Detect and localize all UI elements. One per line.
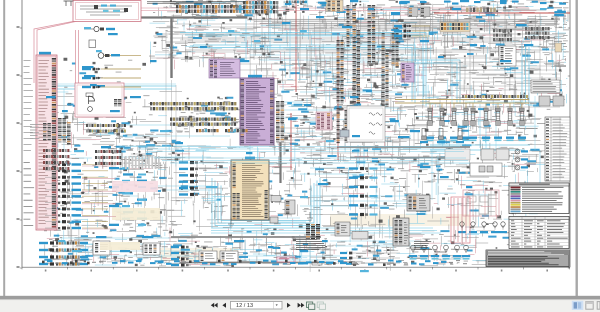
component rows left of tan block (179, 161, 228, 196)
beige box small BB2 (555, 43, 562, 52)
wire gray grid verticals (166, 30, 176, 230)
wire red vertical B (290, 113, 292, 170)
injector connector row above (462, 95, 525, 98)
scattered blue label noise (44, 1, 562, 266)
tiny text noise layer (43, 0, 562, 266)
terminal grid T2 (30, 123, 51, 140)
pale cream band mid-left (112, 208, 160, 220)
ECU pin strip right of U1 (276, 101, 284, 142)
module U3 (lavender, right) (401, 63, 414, 82)
wire harness bundle mid vertical (279, 142, 281, 183)
fuse row F1 top right (452, 8, 546, 13)
blue label cluster mid-left (109, 167, 147, 226)
drawing frame bottom border (22, 266, 570, 268)
vertical connector wires bottom half (67, 124, 463, 272)
gray cell cluster G2 (525, 27, 550, 39)
fine wiring noise layer (43, 0, 568, 266)
disclaimer note box (486, 250, 569, 267)
instrument box IB2 pair (481, 149, 509, 160)
cyan mid bundle reinforcement (130, 147, 470, 164)
toolbar background (0, 300, 600, 312)
connector rows mid-left lower (43, 149, 69, 170)
frame tick marks bottom (22, 267, 569, 269)
cyan label cluster far right (559, 3, 566, 5)
component stack left (rows with blue labels) (45, 163, 108, 230)
switch box SW1 (335, 222, 350, 236)
magenta label bottom-center (277, 257, 295, 262)
faint cream band right-center (330, 214, 470, 226)
page box dropdown caret (276, 304, 278, 306)
right edge tick text column (563, 2, 569, 52)
wire labels column left of P1 (23, 60, 34, 226)
wire fine cyan mesh (46, 36, 540, 256)
cyan label cluster top-right (399, 1, 410, 3)
beige block right BB1 (440, 22, 470, 32)
wire tan injector bus (395, 100, 529, 104)
connector strip J2 top (243, 1, 278, 13)
connector block J3 top beige (326, 0, 343, 12)
connector block CN9 right of tan (285, 200, 295, 214)
sidebar icon 3 partial (597, 302, 600, 310)
toolbar clipboard icon (317, 302, 323, 307)
junction box JB1 (white outline) (340, 106, 385, 142)
note text block N2 (296, 239, 327, 250)
pale pink band mid-left (112, 181, 158, 192)
top edge labels (285, 1, 547, 6)
wire cyan loop around tan block (212, 178, 320, 228)
valve assembly box V1 (pink outline) (75, 83, 124, 117)
drawing frame right border (569, 0, 571, 267)
svg-text:12 / 13: 12 / 13 (236, 303, 253, 309)
connector rows mid-center lower (95, 146, 121, 165)
toolbar prev-page button (222, 303, 226, 308)
wire pink vertical pair to valve box (76, 30, 79, 83)
light gray panel right-mid (445, 149, 470, 160)
wire pink feeder pair from top box (34, 21, 78, 83)
harness table right (tall) (545, 117, 570, 181)
sensor circles row 2 (409, 245, 470, 259)
page right edge shadow (576, 0, 578, 297)
connector row bank C small (196, 129, 248, 132)
harness strip H6 left pair (337, 108, 348, 143)
component rows RC1 right-top (394, 25, 430, 38)
pressure sensor frame (red) PF2 (451, 197, 470, 243)
resistor block R1 small rect (89, 40, 96, 48)
ECU main module U1 (purple) (240, 75, 274, 145)
ring terminals right (515, 149, 528, 170)
tiny dark component noise (45, 0, 562, 267)
bottom-left component rows (39, 241, 88, 265)
relay block K2 (407, 195, 430, 211)
scattered cyan labels (46, 0, 554, 272)
toolbar last-page button (298, 303, 305, 308)
bottom-left box (93, 241, 110, 255)
relay box K1 (pink outline, top) (73, 1, 141, 22)
injector bank row (426, 103, 526, 141)
wire cyan right-mid loops (404, 60, 530, 150)
toolbar next-page button (287, 303, 291, 308)
page left edge shadow (3, 0, 5, 296)
connector row bank A (150, 102, 236, 110)
bottom dense component strip (42, 260, 467, 267)
wire fine gray mesh verticals upper (254, 0, 556, 150)
wire gauge table (509, 217, 569, 249)
connector cluster pink mid (316, 112, 332, 130)
harness strip H2 (347, 5, 361, 105)
long cyan crossing wires (60, 0, 540, 262)
wire black top bus (147, 2, 247, 4)
wire harness bundle vertical (170, 18, 172, 78)
cream band bottom-left (100, 242, 140, 250)
page bottom shadow band (0, 296, 600, 300)
harness strip H1 (337, 40, 344, 104)
drawing frame left border (21, 0, 23, 267)
connector block CN10 (270, 196, 281, 224)
instrument box IB1 (470, 163, 502, 176)
wire cyan mid-left horizontals (46, 86, 176, 89)
T-symbols top-left (64, 1, 74, 6)
blue text BOO (391, 12, 400, 15)
ground symbols row top (near x=238) (228, 0, 313, 228)
connector rows below valve box (86, 124, 126, 133)
faint cream band bottom-center (160, 248, 238, 261)
gray module row top right (408, 7, 430, 17)
wire harness bundle lower horizontals (171, 147, 470, 263)
bottom-center relay row (199, 251, 238, 262)
component rows left cluster (82, 68, 141, 89)
module U2 (lavender, small) (209, 59, 240, 78)
wire cyan long bottom runs (211, 228, 441, 233)
wire pink right run (141, 8, 491, 11)
gray box pair GB2 (539, 96, 564, 106)
small box list BL1 (499, 46, 516, 66)
pale red row wires mid-left (82, 166, 116, 229)
sensor S1 with circle symbol (84, 26, 115, 31)
harness strip H4 (382, 33, 389, 108)
sensor S2 with circle symbol (98, 53, 120, 59)
wire cyan loop top-center (180, 33, 426, 107)
wire color legend table (509, 183, 569, 214)
ground sensor circles row 1 (458, 222, 507, 233)
component rows center (left of relay K3) (320, 167, 378, 216)
harness strip H3 (368, 5, 376, 65)
wire red vertical C (337, 33, 339, 160)
switch box SW2 (352, 232, 368, 240)
terminal grid T1 (58, 118, 71, 145)
connector strip J1 top (176, 2, 241, 13)
sensor frame box (pink) PF1 (463, 190, 499, 216)
wire cyan right verticals (522, 43, 529, 103)
relay block K3 tall (393, 218, 409, 246)
vertical striping block (125, 156, 160, 169)
wire fine gray mesh horizontals upper (150, 20, 560, 163)
connector row bank B (170, 118, 236, 126)
wire tan left runs (104, 56, 141, 88)
toolbar snapshot icon (307, 302, 313, 307)
harness strip H5 (392, 33, 399, 66)
bottom-center component rows (171, 246, 189, 267)
solenoid pair lower (420, 129, 464, 144)
frame row letters left margin (17, 26, 20, 268)
connector block CN11 dense (306, 224, 320, 240)
toolbar first-page button (211, 303, 218, 308)
grid box bottom-left (143, 243, 160, 255)
gray cell cluster G1 (493, 29, 512, 41)
toolbar page number box (231, 301, 283, 309)
sidebar icon active (572, 301, 584, 310)
wire red main feed (434, 12, 570, 14)
power distribution block P1 (pink, left) (36, 52, 57, 230)
frame tick marks left (20, 28, 570, 268)
connector table upper right (531, 80, 560, 93)
vertical wire noise upper center (250, 1, 465, 99)
wire harness bundle top (131, 16, 247, 18)
long parallel wires right band (448, 62, 560, 90)
sidebar icon 2 (586, 302, 593, 310)
bottom rows right-center (300, 252, 400, 265)
monitor unit B3 (tan block) (231, 157, 269, 220)
long parallel feeder wires top band (160, 19, 560, 50)
wire red vertical A (295, 0, 297, 92)
note text block N1 (414, 241, 432, 250)
